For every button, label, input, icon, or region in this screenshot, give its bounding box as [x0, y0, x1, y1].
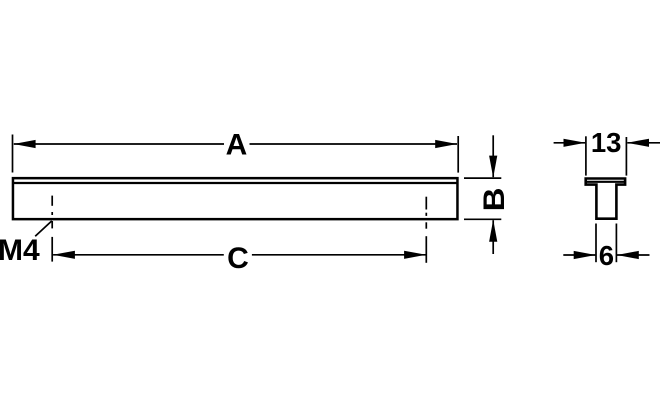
dimension 13 extension line right	[625, 137, 627, 176]
left screw centerline	[51, 196, 53, 262]
dimension A arrow left	[14, 140, 36, 148]
svg-text:B: B	[476, 188, 510, 212]
dimension C arrow left	[53, 251, 75, 259]
dimension B arrow top	[489, 156, 497, 178]
dimension C line left part	[53, 254, 224, 256]
handle bar front top edge line	[13, 182, 458, 184]
svg-text:13: 13	[591, 127, 622, 158]
svg-text:M4: M4	[0, 234, 40, 267]
dimension A arrow right	[435, 140, 457, 148]
dimension 6 extension line left	[595, 224, 597, 263]
dimension 13 extension line left	[585, 136, 587, 175]
side view T-profile outline	[586, 179, 625, 219]
dimension 6 arrow left	[574, 251, 596, 259]
dimension B arrow bottom	[489, 220, 497, 242]
svg-text:C: C	[227, 242, 249, 275]
dimension A extension line left	[12, 135, 14, 173]
dimension C arrow right	[404, 251, 426, 259]
dimension 13 arrow right	[627, 139, 649, 147]
right screw centerline	[425, 197, 427, 263]
dimension B extension line bottom	[464, 218, 501, 220]
handle bar front view outline	[13, 178, 458, 219]
dimension B line bottom part	[492, 220, 494, 254]
dimension A line right part	[250, 143, 458, 145]
dimension 6 line left tail	[563, 254, 595, 256]
dimension 13 line right tail	[627, 142, 660, 144]
side view flange top edge line	[587, 181, 624, 183]
dimension 6 arrow right	[617, 251, 639, 259]
dimension 6 line right tail	[617, 254, 650, 256]
dimension C line right part	[252, 254, 426, 256]
dimension 6 extension line right	[615, 224, 617, 263]
dimension 13 arrow left	[564, 139, 586, 147]
M4 leader line	[35, 221, 52, 236]
dimension 13 line left tail	[554, 142, 586, 144]
dimension B extension line top	[464, 177, 501, 179]
svg-text:6: 6	[599, 240, 614, 271]
svg-text:A: A	[226, 128, 248, 161]
dimension B line top part	[492, 135, 494, 177]
dimension A line left part	[14, 143, 224, 145]
dimension A extension line right	[457, 136, 459, 173]
